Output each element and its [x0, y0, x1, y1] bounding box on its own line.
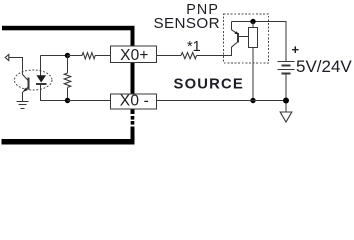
resistor R1 vertical (input parallel resistor) leads: [67, 56, 69, 74]
optocoupler phototransistor emitter lead: [22, 92, 24, 102]
wire node B to X0- terminal: [68, 100, 111, 102]
node C junction dot (sensor rail): [250, 19, 255, 24]
ground (supply common, open triangle): [280, 112, 292, 122]
wire node A to LED anode: [40, 56, 42, 76]
wire resistor R2 to X0+ terminal: [95, 55, 110, 57]
svg-text:X0 -: X0 -: [120, 93, 149, 110]
wire node A horizontal (LED branch to junction): [41, 55, 68, 57]
wire internal signal arrow to phototransistor collector: [9, 58, 23, 75]
resistor R1 zigzag: [64, 73, 71, 87]
node E junction dot: [283, 98, 289, 104]
svg-text:5V/24V: 5V/24V: [296, 57, 352, 76]
node D junction dot: [250, 98, 255, 103]
terminal X0-: [111, 93, 157, 110]
optocoupler phototransistor collector diagonal: [23, 75, 29, 81]
wire node A to resistor R2: [68, 55, 83, 57]
battery BT1 plates: [278, 61, 295, 63]
transistor Q1 (PNP) collector diagonal: [232, 42, 239, 48]
node B junction dot: [65, 98, 70, 103]
transistor Q1 emitter lead: [231, 22, 233, 31]
svg-text:*1: *1: [187, 39, 201, 55]
optocoupler phototransistor base bar: [28, 78, 30, 90]
PLC terminal bar lower solid segment: [131, 127, 135, 141]
transistor Q1 emitter diagonal with arrow: [232, 30, 238, 34]
ground (PLC internal, earth symbol): [17, 101, 29, 103]
wire battery negative to ground: [285, 74, 287, 112]
resistor R2 zigzag (series input resistor): [82, 53, 95, 59]
wire X0+ to resistor *1: [156, 55, 181, 57]
resistor R3 (sensor internal, box symbol): [249, 28, 258, 48]
PLC frame right terminal bar (upper solid segment): [131, 26, 135, 94]
optocoupler LED (anode triangle): [36, 75, 46, 82]
PLC terminal bar stub below X0-: [131, 109, 135, 114]
wire sensor V+ rail to battery positive: [232, 22, 287, 62]
wire rail to resistor R3: [252, 22, 254, 28]
svg-text:SENSOR: SENSOR: [153, 15, 220, 32]
svg-text:+: +: [292, 42, 300, 57]
wire resistor R3 to 0V line: [252, 48, 254, 101]
wire resistor *1 to sensor output (transistor Q1 collector): [197, 47, 232, 56]
PNP sensor dashed box outline: [224, 14, 269, 63]
svg-text:SOURCE: SOURCE: [174, 77, 245, 93]
PLC frame bottom bar: [2, 139, 135, 145]
transistor Q1 base bar: [237, 33, 239, 43]
transistor Q1 base lead to internal resistor: [238, 36, 249, 38]
PLC frame top bar: [2, 26, 135, 31]
optocoupler phototransistor emitter diagonal with arrow: [23, 87, 29, 92]
internal signal arrow: [5, 54, 9, 60]
node A junction dot: [65, 53, 70, 58]
optocoupler U1 dashed ellipse outline: [14, 70, 52, 90]
terminal X0+: [111, 46, 157, 64]
resistor *1 zigzag (external series resistor): [181, 53, 197, 59]
wire LED cathode to node B: [41, 84, 68, 101]
wire X0- to battery negative: [156, 100, 286, 102]
optocoupler LED cathode bar: [36, 83, 46, 85]
svg-text:X0+: X0+: [120, 47, 149, 64]
PLC terminal bar dotted continuation: [131, 116, 135, 120]
